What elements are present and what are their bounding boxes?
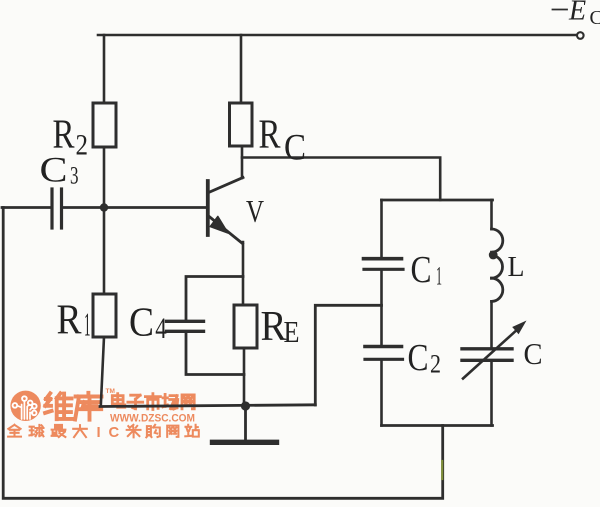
svg-text:C: C xyxy=(129,298,154,344)
svg-text:C: C xyxy=(284,128,306,169)
svg-text:4: 4 xyxy=(155,312,167,345)
svg-text:3: 3 xyxy=(70,162,79,189)
svg-text:C: C xyxy=(408,337,429,379)
svg-text:R: R xyxy=(259,111,282,157)
svg-text:C: C xyxy=(411,249,432,291)
svg-text:C: C xyxy=(40,150,68,190)
svg-text:1: 1 xyxy=(436,261,442,290)
svg-text:C: C xyxy=(590,7,600,29)
svg-text:2: 2 xyxy=(76,128,89,161)
svg-text:E: E xyxy=(284,314,300,349)
svg-text:WWW.DZSC.COM: WWW.DZSC.COM xyxy=(110,413,195,425)
svg-text:I: I xyxy=(97,425,101,441)
svg-text:C: C xyxy=(109,425,120,441)
svg-text:E: E xyxy=(568,0,586,27)
svg-text:C: C xyxy=(524,336,543,371)
svg-text:R: R xyxy=(57,298,82,344)
svg-text:L: L xyxy=(508,251,525,283)
svg-text:V: V xyxy=(246,193,264,229)
svg-text:1: 1 xyxy=(84,306,91,343)
svg-text:2: 2 xyxy=(430,349,441,378)
svg-text:TM: TM xyxy=(106,388,115,395)
